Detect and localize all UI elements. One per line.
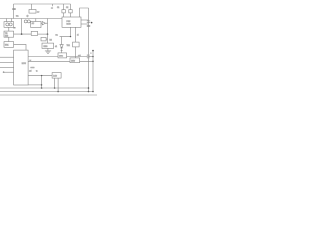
wire input pin2: [0, 61, 14, 63]
regulator G1: [42, 43, 54, 48]
svg-text:220: 220: [5, 35, 8, 37]
wire E to F: [8, 37, 10, 41]
wire psu branch2: [75, 27, 77, 42]
transformer T1: [4, 31, 14, 37]
svg-text:r5: r5: [77, 35, 79, 37]
svg-text:conn: conn: [31, 67, 35, 69]
driver J2: [70, 58, 80, 63]
svg-text:TH1: TH1: [67, 45, 70, 47]
svg-text:ctrl: ctrl: [29, 70, 32, 73]
wire out1: [81, 19, 89, 21]
svg-text:rx: rx: [30, 60, 32, 62]
svg-text:tx: tx: [36, 70, 37, 73]
svg-text:C2: C2: [66, 7, 68, 9]
node serial gnd: [41, 87, 43, 89]
wire filter out: [38, 33, 48, 35]
wire reg gnd: [47, 48, 49, 50]
power supply module U2: [62, 17, 81, 27]
svg-text:BR1: BR1: [5, 44, 9, 46]
capacitor C1: [62, 4, 65, 17]
wire serial drop: [41, 76, 43, 88]
module K1: [52, 73, 61, 79]
ground: [45, 51, 51, 53]
switch S2: [29, 4, 36, 13]
node branch: [70, 36, 71, 37]
fuse F1: [12, 8, 15, 10]
AC inlet J1: [4, 19, 14, 28]
node cap: [92, 56, 94, 58]
wire K1 pin1: [54, 78, 56, 88]
filter FL1: [31, 31, 37, 35]
wire bus com: [0, 94, 97, 96]
wire K1 pin2: [57, 78, 59, 91]
svg-text:ac: ac: [51, 7, 53, 9]
IC U1: [14, 50, 29, 85]
wire tap: [21, 19, 23, 35]
svg-text:D1: D1: [56, 35, 58, 37]
svg-text:MOD: MOD: [67, 24, 72, 26]
wire rect out: [14, 44, 26, 50]
wire serial: [28, 75, 52, 77]
capacitor C3: [87, 21, 90, 22]
contactor K2: [31, 19, 41, 28]
node K1 pin2: [57, 91, 59, 93]
sensor I1: [67, 42, 80, 47]
wire bus gnd: [0, 87, 89, 89]
relay module H1: [58, 53, 67, 58]
wire bus line2: [28, 60, 93, 62]
wire feedback top: [80, 8, 89, 17]
svg-text:d1: d1: [55, 46, 57, 48]
svg-text:sw: sw: [37, 12, 40, 14]
wire D to E: [8, 27, 10, 31]
capacitor C2: [69, 4, 72, 17]
node rail vdd: [92, 91, 94, 93]
node line2: [92, 61, 94, 63]
node ic gnd: [41, 84, 42, 85]
diode D1: [60, 45, 63, 53]
diode D3: [41, 22, 48, 25]
wire top rail: [14, 3, 71, 5]
wire secondary: [14, 33, 32, 35]
wire bus line1: [28, 56, 87, 58]
wire psu branch: [60, 27, 71, 44]
wire input pin4: [3, 72, 14, 73]
capacitor C5: [87, 54, 89, 58]
svg-text:fu1: fu1: [16, 16, 19, 18]
wire out2: [81, 23, 89, 25]
svg-text:rly: rly: [27, 16, 29, 18]
polarity mark: [13, 27, 15, 28]
wire sensor down: [75, 47, 77, 58]
node serial: [41, 75, 42, 76]
node 5V: [92, 50, 94, 52]
wire input pin1: [0, 56, 14, 58]
wire AC drop: [13, 4, 15, 19]
wire cap link: [89, 56, 93, 58]
motor M1: [24, 20, 30, 23]
node tap: [21, 33, 23, 35]
svg-text:C1: C1: [57, 7, 59, 9]
capacitor C4: [87, 25, 90, 26]
node rail gnd2: [88, 91, 90, 93]
wire mains rail: [0, 18, 62, 20]
svg-text:D2: D2: [50, 40, 52, 42]
rectifier B1: [4, 42, 14, 48]
wire ic bottom stub: [28, 84, 41, 86]
svg-text:+: +: [90, 52, 91, 54]
wire bus vdd: [0, 91, 93, 93]
svg-text:REG: REG: [44, 46, 48, 48]
rail right V+: [88, 8, 90, 92]
rail right 5V: [92, 51, 94, 92]
wire input pin3: [0, 67, 14, 69]
node tap AC: [52, 4, 54, 6]
node mid: [47, 33, 49, 35]
node rail gnd: [88, 87, 90, 89]
wire mid drop: [47, 19, 49, 44]
svg-text:MCU: MCU: [22, 63, 27, 65]
resistor R1: [41, 37, 48, 41]
node K1 pin1: [54, 87, 56, 89]
node out: [91, 22, 93, 24]
